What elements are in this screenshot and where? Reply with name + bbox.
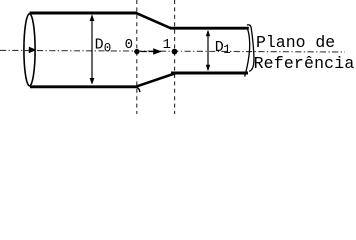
svg-text:1: 1 xyxy=(223,43,231,57)
svg-text:D: D xyxy=(95,36,104,53)
svg-text:0: 0 xyxy=(125,37,133,53)
svg-text:Referência: Referência xyxy=(254,54,355,73)
svg-text:Plano de: Plano de xyxy=(256,33,335,52)
svg-text:1: 1 xyxy=(163,37,171,53)
svg-text:0: 0 xyxy=(104,42,112,56)
